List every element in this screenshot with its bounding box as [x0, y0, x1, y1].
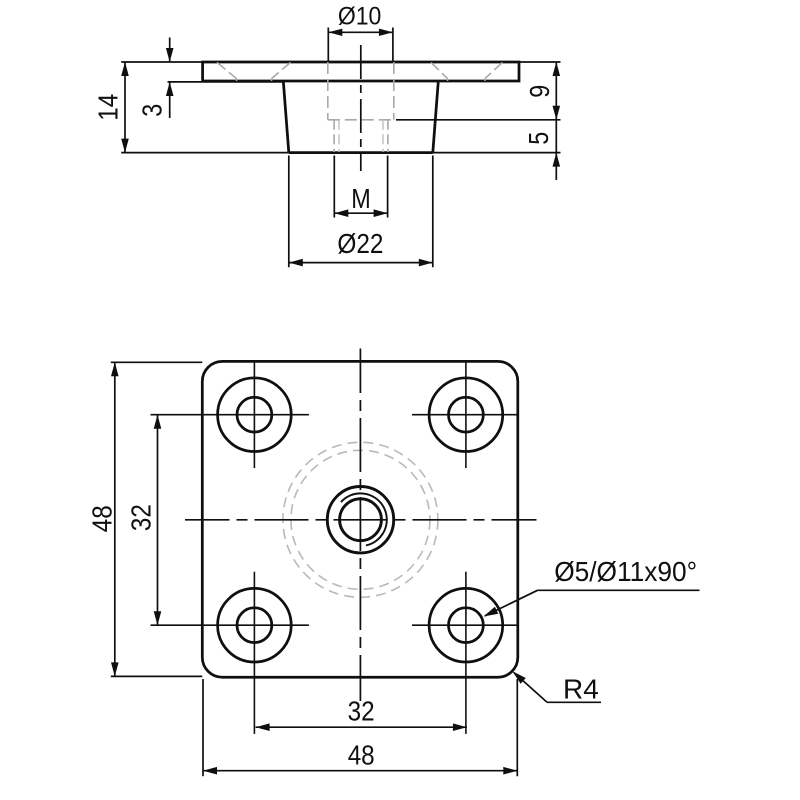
dim 9 extension line top [519, 61, 561, 63]
cone left edge [283, 81, 289, 153]
leader O5/O11x90 [538, 589, 700, 591]
dim 32 left dimension line [157, 415, 159, 626]
dim 48 bottom dimension line [203, 770, 517, 772]
svg-text:5: 5 [523, 132, 554, 145]
dim 3 extension line bottom [168, 81, 285, 83]
dim 9 dimension line [555, 62, 557, 120]
svg-text:48: 48 [348, 739, 375, 770]
cone bottom extension line right [433, 152, 561, 154]
svg-text:14: 14 [93, 94, 124, 121]
dim 14 dimension line [124, 62, 126, 153]
svg-text:32: 32 [125, 504, 156, 531]
dim 48 left dimension line [114, 362, 116, 676]
svg-text:M: M [351, 183, 371, 214]
hidden cone circles [283, 442, 438, 597]
leader R4 [547, 701, 601, 703]
center hole bore [340, 499, 382, 541]
dim O10 dimension line [328, 31, 393, 33]
svg-text:3: 3 [136, 104, 167, 117]
centerlines hole bottom-left [151, 572, 309, 734]
center hole counterbore O10 [327, 487, 393, 553]
corner hole bottom-left [218, 588, 292, 662]
dim M extension lines [333, 156, 335, 218]
corner hole top-right [429, 378, 503, 452]
dim O10 extension lines [327, 28, 329, 63]
svg-text:R4: R4 [563, 673, 599, 704]
svg-text:Ø22: Ø22 [337, 228, 383, 259]
dim 48 left extension lines [111, 361, 203, 363]
svg-text:Ø5/Ø11x90°: Ø5/Ø11x90° [554, 556, 697, 587]
corner hole top-left [218, 378, 292, 452]
center hole thread arc [341, 493, 387, 545]
centerline top view [360, 45, 362, 171]
main centerlines [185, 519, 537, 521]
svg-text:Ø10: Ø10 [338, 2, 382, 30]
hidden countersink V left [217, 62, 291, 81]
svg-text:9: 9 [524, 85, 555, 98]
dim M dimension line [334, 212, 387, 214]
counterbore depth extension line [396, 119, 561, 121]
svg-text:32: 32 [348, 696, 375, 727]
dim 3 arrows (outside) [169, 38, 171, 63]
flange plate outline (section) [203, 62, 519, 81]
dim O22 dimension line [289, 262, 433, 264]
dim 5 dimension line and outside arrow [555, 120, 557, 153]
dim O22 extension lines [288, 156, 290, 268]
hidden counterbore O10 [328, 62, 394, 120]
centerlines hole top-left [151, 361, 309, 468]
hidden thread M outer [334, 120, 388, 152]
dim 14 / cone bottom extension line left [121, 152, 289, 154]
centerlines hole bottom-right [412, 572, 518, 734]
cone right edge [433, 81, 439, 153]
square plate outline [202, 361, 518, 677]
cone bottom edge [289, 151, 433, 154]
corner hole bottom-right [429, 588, 503, 662]
dim 32 bottom dimension line [256, 726, 467, 728]
svg-text:48: 48 [86, 505, 117, 532]
dim 48 bottom extension lines [202, 679, 204, 776]
hidden countersink V right [431, 62, 502, 81]
centerlines hole top-right [412, 361, 518, 468]
dim 14 extension line top [121, 61, 202, 63]
hidden thread M inner [339, 120, 383, 152]
